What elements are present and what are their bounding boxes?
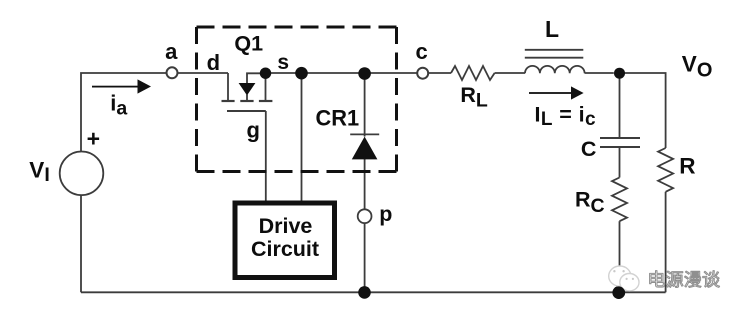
wire: node a to Q1 drain [178, 72, 228, 74]
watermark logo left bubble [609, 266, 631, 286]
svg-text:ia: ia [110, 90, 127, 119]
node c open circle [417, 68, 428, 79]
wire: drive branch node to CR1 node [302, 72, 365, 74]
current arrow IL [529, 86, 584, 99]
svg-text:d: d [207, 50, 220, 75]
wire: drive branch vertical [301, 73, 303, 201]
svg-text:VI: VI [29, 157, 49, 186]
svg-text:Circuit: Circuit [251, 237, 319, 261]
drive circuit box [235, 203, 335, 278]
node a open circle [167, 67, 178, 78]
wire: s node to drive branch node [266, 72, 302, 74]
svg-text:a: a [165, 39, 178, 64]
resistor RC zigzag [612, 178, 627, 222]
wire: capacitor to RC [619, 148, 621, 178]
watermark logo right bubble [620, 274, 639, 291]
voltage source VI circle [60, 152, 104, 196]
transistor Q1 body arrow stub [247, 73, 266, 83]
resistor RL zigzag [451, 66, 495, 80]
node p open circle [358, 209, 372, 223]
junction dot bottom RC [613, 286, 626, 299]
svg-text:g: g [246, 118, 259, 143]
wire: CR1 node to node c [365, 72, 418, 74]
diode CR1 vertical and cathode bar [364, 73, 366, 137]
wire: node c to resistor RL [428, 72, 451, 74]
junction dot CR1 top [358, 67, 371, 80]
junction dot bottom CR1 [358, 286, 371, 299]
wire: node p to bottom rail [364, 223, 366, 292]
diode CR1 triangle [352, 137, 378, 160]
svg-text:c: c [415, 39, 427, 64]
wire: output node down to capacitor C [619, 73, 621, 138]
watermark logo left bubble eyes [613, 270, 625, 272]
svg-text:IL = ic: IL = ic [535, 102, 596, 129]
svg-text:CR1: CR1 [315, 105, 359, 130]
wire: below source to bottom rail [80, 195, 82, 292]
svg-text:Drive: Drive [259, 214, 313, 238]
wire: top-left from source corner to node a [81, 73, 166, 152]
svg-text:s: s [277, 51, 289, 74]
wire: inductor to output node [585, 72, 614, 74]
junction dot drive branch [295, 67, 308, 80]
transistor Q1 gate plate and lead [227, 110, 266, 112]
svg-text:VO: VO [682, 51, 713, 81]
junction dot bottom RC over logo [612, 286, 625, 299]
transistor Q1 body arrow head [239, 83, 256, 95]
inductor L core bars [525, 49, 584, 51]
wire: bottom rail [81, 291, 666, 293]
watermark text 电源漫谈 [650, 271, 720, 288]
svg-text:RC: RC [575, 188, 605, 217]
wire: R to bottom rail [665, 192, 667, 292]
svg-text:p: p [379, 202, 392, 226]
svg-text:Q1: Q1 [234, 31, 263, 55]
junction dot output node [614, 68, 625, 79]
junction dot s node [260, 68, 271, 79]
watermark logo right bubble eyes [626, 278, 635, 280]
svg-text:R: R [679, 153, 695, 178]
current arrow ia [92, 79, 151, 93]
svg-text:+: + [87, 125, 100, 151]
inductor L coils [525, 66, 585, 73]
svg-text:C: C [581, 137, 597, 161]
svg-text:RL: RL [460, 83, 488, 112]
wire: output node to VO corner and down to R [620, 73, 666, 148]
transistor Q1 drain lead [227, 73, 229, 101]
transistor Q1 source lead [265, 73, 267, 101]
svg-text:L: L [545, 16, 559, 42]
wire: RC to bottom rail [619, 221, 621, 292]
resistor R zigzag [658, 148, 673, 192]
capacitor C plates [600, 137, 640, 139]
wire: RL to inductor [495, 72, 525, 74]
dashed box around Q1 and CR1 [197, 27, 397, 172]
